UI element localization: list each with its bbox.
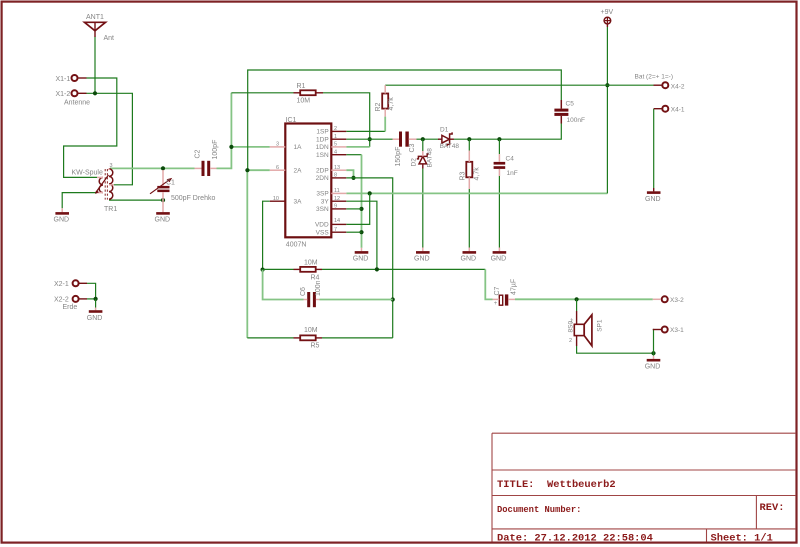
node junction X3-1 GND: [651, 351, 655, 355]
svg-text:R3: R3: [459, 171, 466, 180]
IC1 pin stubs left: [270, 147, 286, 201]
wire R3 bottom to GND: [468, 189, 470, 248]
wire pin11 row to +9V corner (highlighted): [346, 192, 607, 194]
ground R3: [461, 248, 477, 263]
node junction C1 bottom: [161, 198, 165, 202]
ground C1: [155, 199, 171, 224]
wire C7 right to X3-2 (highlighted): [515, 298, 653, 300]
svg-text:+9V: +9V: [601, 9, 614, 16]
svg-text:150pF: 150pF: [395, 147, 402, 167]
svg-text:X3-2: X3-2: [670, 297, 684, 304]
connector X2-2: [54, 296, 87, 311]
wire R5 row right: [322, 337, 393, 339]
connector X1-1: [56, 75, 87, 83]
wire X2-2 stub to junction: [87, 298, 96, 300]
svg-text:100n: 100n: [315, 280, 322, 296]
wire X2-1 to X2-2 junction: [87, 283, 96, 299]
svg-text:1A: 1A: [294, 144, 303, 151]
svg-text:10M: 10M: [304, 259, 318, 266]
capacitor C3 150pF: [393, 132, 417, 167]
wire pin1 row to C3: [346, 138, 392, 140]
svg-text:4,7k: 4,7k: [388, 97, 395, 111]
node junction pin7: [359, 230, 363, 234]
speaker SP1: [568, 311, 604, 346]
svg-text:Ant: Ant: [104, 35, 115, 42]
svg-text:10M: 10M: [304, 327, 318, 334]
svg-text:2: 2: [569, 338, 572, 344]
svg-text:4007N: 4007N: [286, 242, 307, 249]
resistor R5 10M: [294, 327, 323, 349]
svg-text:+: +: [494, 301, 498, 307]
svg-text:X4-2: X4-2: [671, 83, 685, 90]
svg-text:2DP: 2DP: [316, 168, 329, 175]
svg-text:C3: C3: [409, 143, 416, 152]
svg-text:Date: 27.12.2012 22:58:04: Date: 27.12.2012 22:58:04: [497, 533, 653, 545]
wire C6 right row (highlighted): [320, 299, 393, 301]
svg-text:3A: 3A: [294, 199, 303, 206]
svg-text:BAT48: BAT48: [440, 143, 460, 150]
ground X3-1: [645, 356, 661, 371]
svg-text:R5: R5: [311, 342, 320, 349]
IC1 pin stubs right: [331, 131, 346, 232]
wire R1 right down to pin1/pin5: [323, 93, 370, 147]
svg-text:GND: GND: [645, 364, 661, 371]
supply +9V symbol: [601, 9, 614, 27]
wire R4 row: [263, 268, 294, 270]
svg-text:1nF: 1nF: [507, 170, 518, 177]
svg-text:3Y: 3Y: [321, 199, 330, 206]
svg-text:10M: 10M: [297, 97, 311, 104]
connector X1-2: [56, 90, 91, 106]
resistor R4 10M: [294, 259, 323, 281]
node junction C1 top: [161, 166, 165, 170]
node junction pin3 branch: [229, 145, 233, 149]
wire pin3 branch (highlighted): [231, 146, 269, 148]
node junction X2: [94, 297, 98, 301]
transformer TR1: [72, 163, 118, 213]
capacitor C2 100pF: [195, 140, 219, 176]
svg-text:Document Number:: Document Number:: [497, 505, 581, 515]
node junction D2 branch: [421, 137, 425, 141]
svg-text:Bat (2=+ 1=-): Bat (2=+ 1=-): [635, 74, 673, 81]
wire +9V supply down: [606, 27, 608, 193]
svg-text:8S0,: 8S0,: [568, 319, 575, 333]
IC1 pin names left: [294, 144, 303, 205]
wire TR1 top to C2 (highlighted): [110, 167, 195, 169]
svg-text:GND: GND: [155, 217, 171, 224]
wire SP1 bottom to X3-1 GND: [577, 346, 654, 353]
svg-text:TITLE:: TITLE:: [497, 479, 534, 491]
svg-text:100nF: 100nF: [567, 117, 585, 124]
wire X3-1 vertical: [652, 330, 655, 356]
wire TR1 left winding bottom to GND: [62, 193, 97, 209]
resistor R3 4,7k: [459, 151, 480, 190]
ground X2: [87, 308, 103, 322]
svg-text:KW-Spule: KW-Spule: [72, 170, 103, 177]
wire R5 row left: [247, 337, 293, 339]
wire C3 right to D1 anode: [417, 138, 440, 140]
op-amp IC1 4007N body: [285, 117, 331, 249]
svg-text:Sheet: 1/1: Sheet: 1/1: [711, 533, 773, 545]
antenna ANT1: [85, 14, 115, 42]
node junction C4 branch: [497, 137, 501, 141]
svg-text:GND: GND: [645, 196, 661, 203]
wire pin9 row: [346, 208, 361, 210]
svg-text:X1-1: X1-1: [56, 76, 71, 83]
connector X4-1: [654, 106, 685, 114]
wire top rail C5 top / 2A net upper: [248, 70, 562, 170]
resistor R2 4,7k: [375, 85, 395, 116]
node junction pin1 row x R1 vertical: [368, 137, 372, 141]
wire pin12 row down to R4: [346, 201, 377, 269]
ground D2: [414, 248, 430, 263]
svg-text:1DN: 1DN: [316, 144, 329, 151]
svg-text:100pF: 100pF: [212, 140, 219, 160]
node junction R4 right / pin12: [375, 267, 379, 271]
svg-text:4,7k: 4,7k: [474, 167, 481, 181]
wire D2 bottom to GND: [422, 169, 424, 248]
wire R2 bottom vertical (highlighted): [384, 117, 386, 132]
node junction pin11/VDD: [368, 191, 372, 195]
svg-text:C5: C5: [566, 101, 575, 108]
wire TR1 bottom row to C1 bottom: [109, 199, 163, 201]
polarized capacitor C7 47uF: [493, 279, 518, 307]
svg-text:1SN: 1SN: [316, 152, 329, 159]
ground X4-1: [645, 188, 661, 203]
svg-text:VDD: VDD: [315, 222, 329, 229]
wire antenna down to X1-2 junction: [94, 37, 96, 94]
IC1 pin numbers left: [273, 142, 279, 202]
svg-text:TR1: TR1: [104, 206, 117, 213]
svg-text:R2: R2: [375, 102, 382, 111]
variable capacitor C1 500pF Drehko: [150, 170, 215, 202]
node junction R4 left: [261, 268, 265, 272]
svg-text:3: 3: [110, 163, 113, 169]
wire SP1 top vertical: [576, 299, 578, 311]
IC1 pin numbers right: [334, 126, 340, 233]
wire R3 top vertical: [468, 139, 470, 150]
wire +9V rail to R2 top and X4-2 (highlighted): [385, 84, 653, 86]
svg-text:1SP: 1SP: [316, 129, 328, 136]
wire C4 top vertical: [498, 139, 500, 154]
wire pin7 row: [346, 231, 361, 233]
wire C4 bottom to GND: [498, 176, 500, 248]
svg-text:3SP: 3SP: [316, 191, 328, 198]
capacitor C4 1nF: [494, 154, 518, 177]
svg-text:1DP: 1DP: [316, 137, 329, 144]
svg-text:C6: C6: [300, 287, 307, 296]
wire R1 left horizontal: [231, 92, 293, 94]
svg-text:C4: C4: [506, 155, 515, 162]
svg-text:14: 14: [334, 218, 340, 224]
svg-text:SP1: SP1: [596, 319, 603, 332]
capacitor C5 100nF: [554, 100, 585, 124]
wire pin5 to vertical (highlighted): [346, 146, 369, 148]
connector X3-2: [653, 296, 684, 304]
wire pin13 to pin8 (highlighted): [346, 170, 353, 178]
svg-text:IC1: IC1: [286, 117, 297, 124]
svg-text:GND: GND: [461, 256, 477, 263]
wire R4 right down to C7 left (highlighted): [485, 269, 492, 299]
node junction C6 right: [391, 297, 395, 301]
svg-text:Antenne: Antenne: [64, 99, 90, 106]
node junction R3 branch: [467, 137, 471, 141]
wire pin6 branch (highlighted): [247, 169, 269, 171]
wire D2 top vertical: [422, 139, 424, 151]
svg-text:GND: GND: [414, 256, 430, 263]
ground VSS: [353, 248, 369, 263]
wire X1-1 to TR1 left winding top: [64, 78, 117, 177]
svg-text:X2-2: X2-2: [54, 297, 69, 304]
svg-text:GND: GND: [54, 217, 70, 224]
wire X1-2 to TR1 tap: [87, 93, 133, 185]
svg-text:X2-1: X2-1: [54, 281, 69, 288]
svg-text:X3-1: X3-1: [670, 327, 684, 334]
wire VDD vertical pin14: [346, 193, 369, 224]
node junction antenna/X1-2: [93, 91, 97, 95]
svg-text:R1: R1: [297, 83, 306, 90]
wire pin4 1SN to GND net: [346, 154, 361, 156]
title block frame lines: [492, 433, 795, 541]
svg-text:C2: C2: [195, 149, 202, 158]
diode D1 BAT48: [438, 127, 459, 151]
svg-text:3SN: 3SN: [316, 206, 329, 213]
svg-text:Erde: Erde: [63, 304, 78, 311]
resistor R1 10M: [294, 83, 324, 104]
node junction pin9: [359, 207, 363, 211]
svg-text:GND: GND: [87, 315, 103, 322]
wire C2 right to R1 left and pin3 (highlighted): [217, 93, 232, 169]
wire 2A net lower vertical to R5 left (highlighted): [246, 170, 248, 338]
wire X4-1 to GND: [653, 109, 655, 188]
svg-text:D2: D2: [411, 158, 418, 167]
svg-text:C1: C1: [166, 180, 175, 187]
svg-text:ANT1: ANT1: [86, 14, 104, 21]
svg-text:500pF Drehko: 500pF Drehko: [171, 195, 215, 202]
connector X4-2: [635, 74, 685, 91]
diode D2 BAT48 vertical: [411, 148, 434, 169]
svg-text:X1-2: X1-2: [56, 91, 71, 98]
capacitor C6 100n: [300, 280, 322, 307]
svg-text:GND: GND: [491, 256, 507, 263]
svg-text:X4-1: X4-1: [671, 106, 685, 113]
wire pin2 to R2 bottom: [346, 130, 385, 132]
svg-text:R4: R4: [311, 274, 320, 281]
svg-text:2DN: 2DN: [316, 175, 329, 182]
svg-text:C7: C7: [494, 286, 501, 295]
ground C4: [491, 248, 507, 263]
wire D1 cathode to C5 bottom with R3 C4 branches: [454, 123, 562, 139]
svg-text:47µF: 47µF: [511, 279, 518, 295]
node junction SP1 top: [575, 297, 579, 301]
wire pin10 row to R4 left and C6 left: [263, 201, 270, 269]
IC1 pin names right: [315, 129, 329, 237]
wire R4 left to C6 left (highlighted lower part): [263, 270, 304, 300]
svg-text:2A: 2A: [294, 168, 303, 175]
connector X2-1: [54, 280, 87, 288]
node junction pin6 branch: [245, 168, 249, 172]
node junction pin13/pin8: [351, 176, 355, 180]
svg-text:D1: D1: [440, 127, 449, 134]
wire X2 junction to GND: [95, 299, 97, 308]
svg-text:REV:: REV:: [760, 502, 785, 514]
ground TR1 left: [54, 208, 70, 223]
svg-text:BAT48: BAT48: [427, 148, 434, 168]
svg-text:VSS: VSS: [316, 230, 330, 237]
node junction +9V rail X4-2: [605, 83, 609, 87]
connector X3-1: [653, 327, 684, 335]
svg-text:Wettbeuerb2: Wettbeuerb2: [547, 479, 616, 491]
svg-text:GND: GND: [353, 256, 369, 263]
wire pin8 row to C6/R5 vertical: [346, 178, 392, 338]
